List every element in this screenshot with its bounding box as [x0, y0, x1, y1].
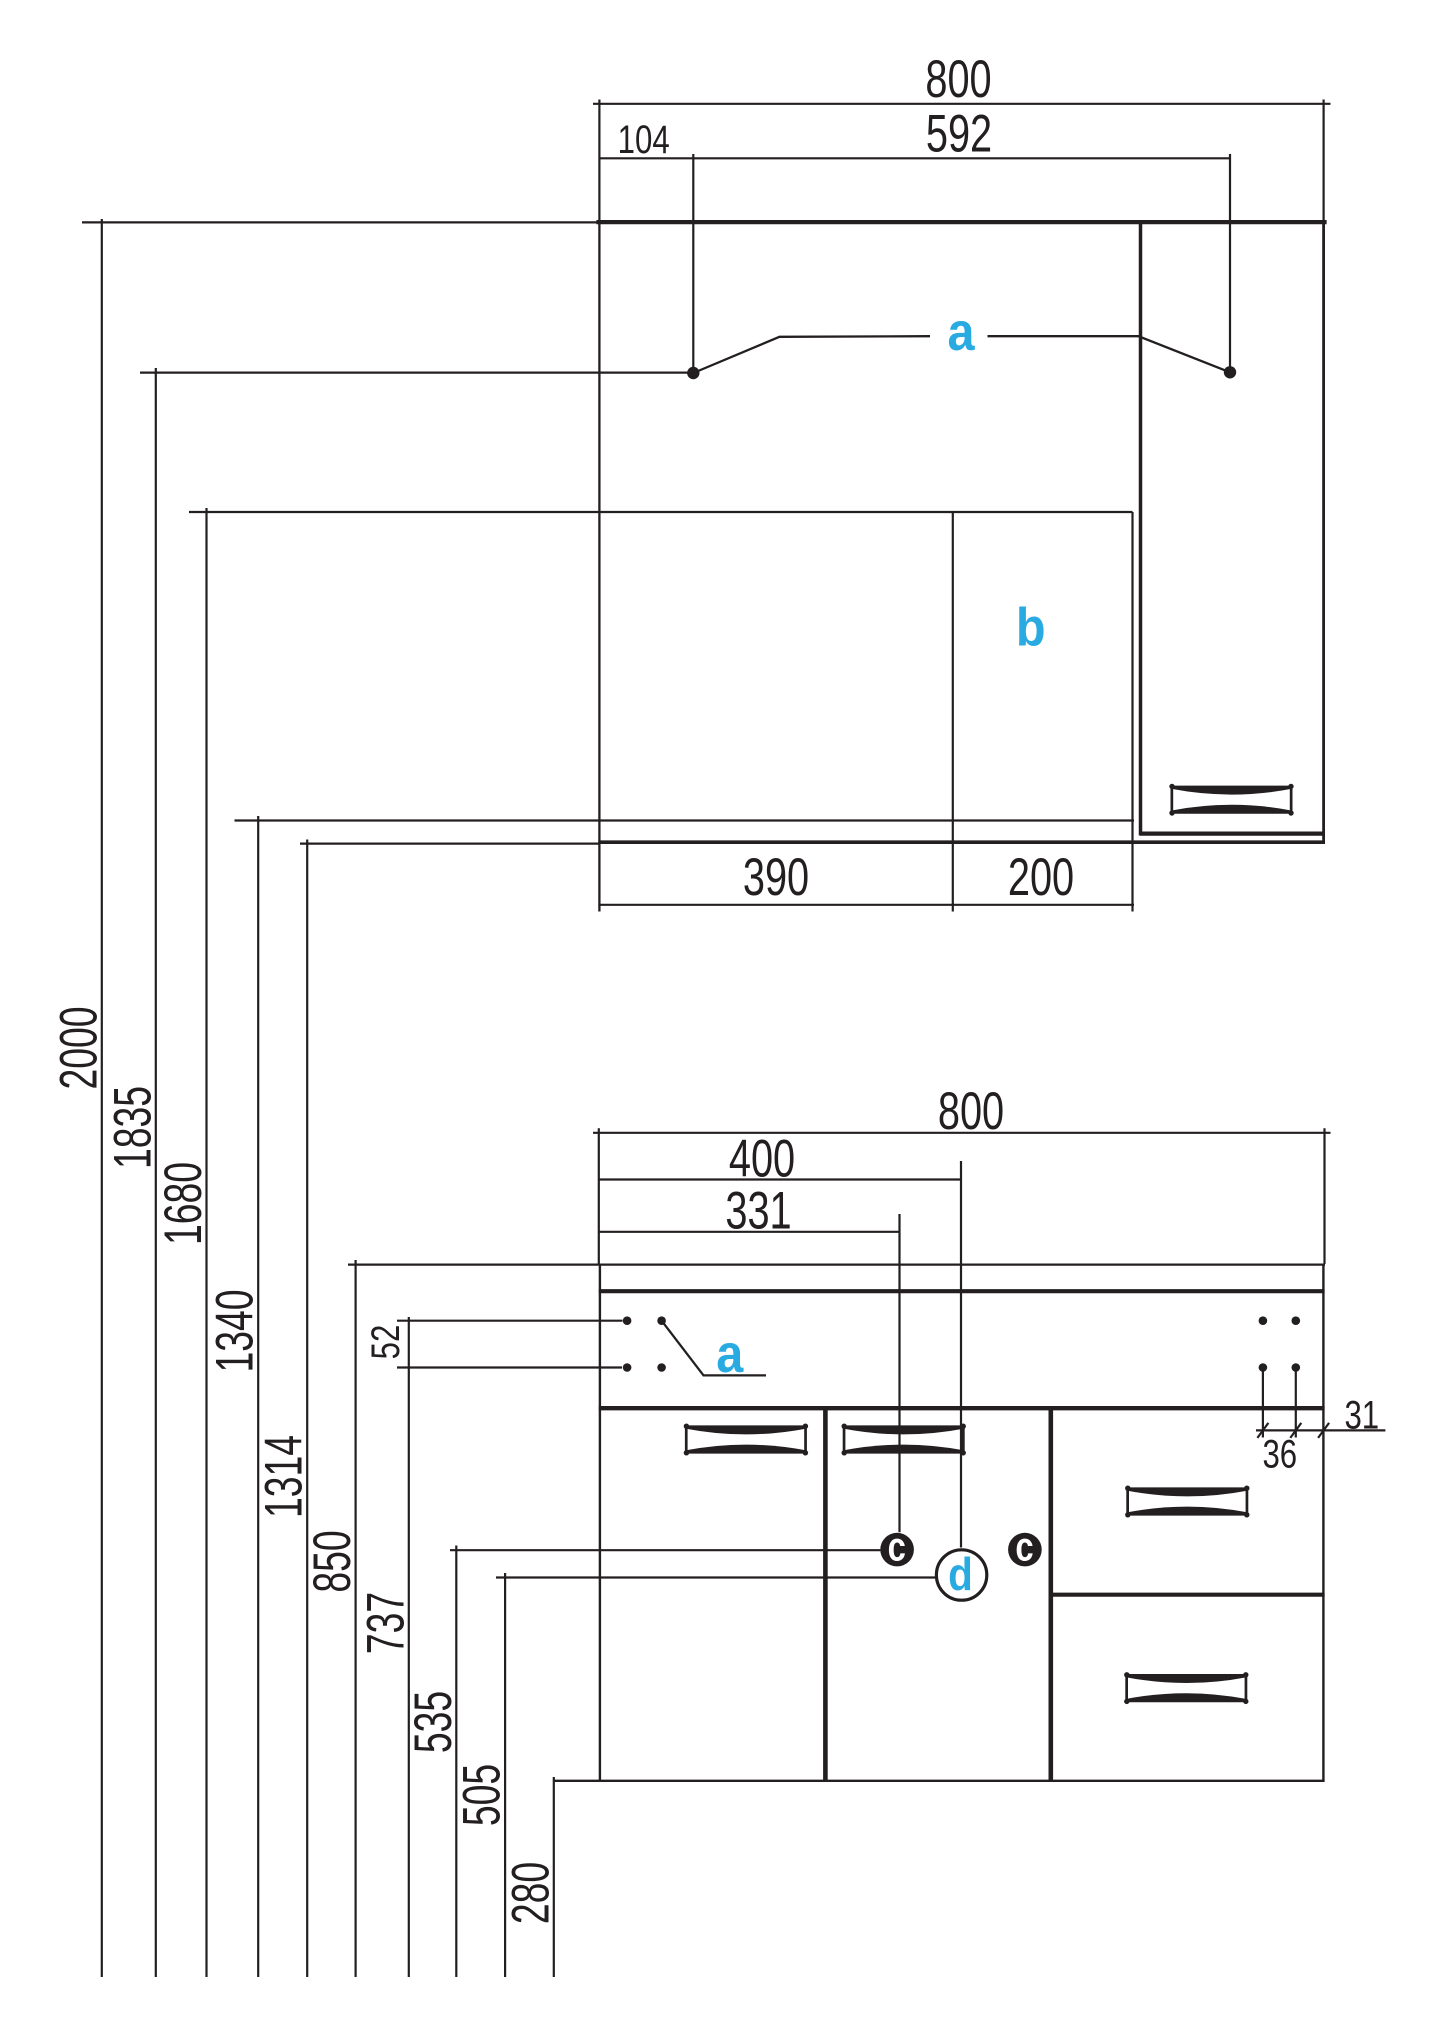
- left vertical extension 280: [553, 1777, 555, 1977]
- door middle partition (thick): [823, 1408, 828, 1780]
- dim line 1314 horizontal: [300, 842, 599, 844]
- left vertical extension 1314: [306, 840, 308, 1978]
- left vertical extension 535: [455, 1546, 457, 1978]
- slash tick 3: [1318, 1423, 1329, 1438]
- svg-text:1835: 1835: [102, 1086, 162, 1169]
- svg-text:c: c: [1015, 1523, 1033, 1569]
- doors top edge (thick): [599, 1406, 1325, 1410]
- countertop top edge / dim line 850: [348, 1263, 1325, 1265]
- svg-text:1340: 1340: [204, 1289, 264, 1372]
- top cabinet right edge: [1322, 222, 1325, 843]
- countertop bottom edge (thick): [599, 1289, 1325, 1293]
- svg-text:505: 505: [451, 1764, 511, 1826]
- mirror bottom edge / dim line 1340: [235, 819, 1135, 821]
- screw extension lines right: [1262, 1368, 1264, 1438]
- dim line 2000 horizontal: [82, 221, 598, 223]
- svg-text:850: 850: [302, 1530, 362, 1592]
- svg-text:800: 800: [938, 1082, 1004, 1141]
- vanity right side: [1322, 1265, 1324, 1781]
- handle drawer 2: [1124, 1672, 1248, 1704]
- svg-text:a: a: [716, 1323, 743, 1384]
- dim line 331: [599, 1231, 900, 1233]
- left vertical extension 737 / dim 52: [408, 1317, 410, 1977]
- svg-text:a: a: [947, 301, 974, 362]
- drawer divider (thick): [1051, 1593, 1325, 1597]
- hinge dots right group: [1259, 1316, 1301, 1371]
- hinge dots left group: [623, 1316, 666, 1371]
- handle middle door: [842, 1424, 966, 1456]
- leader a top-left: [693, 336, 930, 373]
- knob c2: [1008, 1533, 1042, 1567]
- extension 400 down to knob d: [960, 1161, 962, 1548]
- leader a lower: [662, 1321, 766, 1376]
- svg-text:400: 400: [729, 1129, 795, 1188]
- handle drawer 1: [1125, 1486, 1249, 1518]
- svg-text:2000: 2000: [48, 1006, 108, 1089]
- vanity bottom edge / dim line 280: [554, 1780, 1325, 1782]
- mirror right edge + extension to 390/200 dim: [1131, 512, 1133, 912]
- hook dot a left: [687, 367, 699, 379]
- dim line 800 top: [593, 103, 1331, 105]
- svg-text:800: 800: [925, 49, 991, 108]
- svg-text:592: 592: [926, 104, 992, 163]
- hook dot a right: [1224, 366, 1236, 378]
- dim line 52 upper / hinge row: [397, 1320, 623, 1322]
- svg-text:31: 31: [1344, 1393, 1379, 1438]
- extension 592 left / hook a left: [692, 154, 694, 369]
- dim line 36/31: [1256, 1429, 1385, 1431]
- dim line 737 / 52 lower: [397, 1366, 622, 1368]
- slash tick 1: [1257, 1423, 1268, 1438]
- top cabinet top edge (thick): [596, 220, 1326, 224]
- extension 592 right / hook a right: [1229, 154, 1231, 368]
- svg-text:36: 36: [1262, 1432, 1297, 1477]
- slash tick 2: [1290, 1423, 1301, 1438]
- mirror top edge / dim line 1680: [189, 511, 1133, 513]
- dim line 800 lower: [593, 1132, 1331, 1134]
- drawers partition (thick): [1049, 1408, 1054, 1780]
- top cabinet door bottom edge (thick): [1140, 831, 1323, 835]
- dim line 535: [450, 1549, 880, 1551]
- extension 800 left: [598, 100, 600, 223]
- svg-text:104: 104: [618, 117, 670, 162]
- mirror divider + extension: [952, 512, 954, 912]
- top cabinet door partition: [1139, 223, 1143, 836]
- extension 331 down to knob c: [898, 1214, 900, 1532]
- left vertical extension 1835: [155, 368, 157, 1977]
- svg-text:b: b: [1016, 596, 1046, 657]
- left vertical extension 505: [504, 1573, 506, 1977]
- extension 800 right: [1322, 100, 1324, 223]
- left vertical extension 2000: [101, 219, 103, 1977]
- dim line 400: [599, 1178, 961, 1180]
- svg-text:280: 280: [500, 1862, 560, 1924]
- leader a top-right: [988, 336, 1231, 372]
- dim line 592: [599, 157, 1231, 159]
- dim line 505: [496, 1576, 935, 1578]
- dim line 1835 horizontal: [140, 372, 688, 374]
- svg-text:c: c: [888, 1523, 906, 1569]
- left vertical extension 850: [355, 1260, 357, 1977]
- vanity left side: [599, 1265, 601, 1781]
- svg-text:d: d: [948, 1550, 973, 1601]
- knob c1: [880, 1533, 914, 1567]
- knob d circle: [936, 1550, 986, 1600]
- handle left door: [684, 1424, 808, 1456]
- top cabinet bottom shelf (thick): [598, 840, 1325, 844]
- dim line 390/200: [598, 904, 1134, 906]
- svg-text:390: 390: [743, 847, 809, 906]
- svg-text:52: 52: [363, 1325, 408, 1360]
- svg-text:737: 737: [355, 1592, 415, 1654]
- svg-text:1680: 1680: [152, 1162, 212, 1245]
- svg-text:200: 200: [1008, 847, 1074, 906]
- left vertical extension 1680: [205, 508, 207, 1977]
- top cabinet left edge: [598, 222, 600, 912]
- svg-text:535: 535: [402, 1691, 462, 1753]
- svg-text:1314: 1314: [253, 1435, 313, 1518]
- extension 800 lower left: [598, 1128, 600, 1264]
- svg-text:331: 331: [725, 1181, 791, 1240]
- left vertical extension 1340: [257, 816, 259, 1977]
- extension 800 lower right: [1323, 1128, 1325, 1264]
- handle mirror-cabinet door: [1169, 784, 1293, 816]
